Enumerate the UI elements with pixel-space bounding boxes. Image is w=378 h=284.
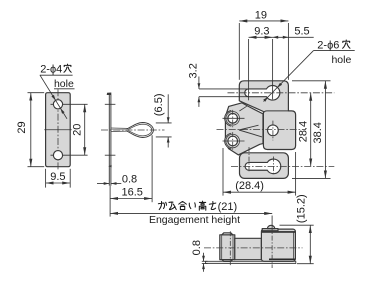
dimension 9.3 extension lines bbox=[248, 39, 250, 100]
bottom keyhole vertical center line bbox=[248, 147, 250, 172]
top hole horizontal center line bbox=[228, 92, 335, 94]
middle horizontal center line bbox=[217, 129, 307, 131]
side view left block top tab bbox=[222, 233, 233, 235]
top keyhole slot (phi6) bbox=[245, 86, 280, 101]
svg-text:19: 19 bbox=[255, 9, 267, 21]
dimension 38.4 line bbox=[324, 81, 326, 179]
bottom keyhole slot (phi6) bbox=[245, 159, 281, 174]
label underline 2-phi4 bbox=[40, 74, 73, 76]
dimension (28.4) extension lines bbox=[222, 148, 224, 196]
svg-text:16.5: 16.5 bbox=[121, 186, 142, 198]
dimension 29 extension lines bbox=[28, 92, 45, 94]
clip strip top hook bbox=[107, 93, 112, 96]
label kamiai-takasa (21) bbox=[158, 201, 166, 209]
dimension 3.2 extension lines bbox=[199, 88, 249, 90]
dimension 5.5 line bbox=[273, 36, 314, 38]
dimension (15.2) extension lines bbox=[280, 224, 314, 226]
bottom hole horizontal center line bbox=[231, 165, 334, 167]
strike plate mid center line bbox=[44, 129, 71, 131]
dimension 19 extension lines bbox=[238, 23, 240, 80]
svg-text:(15.2): (15.2) bbox=[296, 194, 308, 223]
svg-text:0.8: 0.8 bbox=[122, 173, 137, 185]
dimension 0.8 side ticks bbox=[202, 260, 208, 262]
clip top hole tick bbox=[105, 103, 116, 105]
dimension 38.4 extension lines bbox=[292, 80, 331, 82]
lower roller ring bbox=[225, 133, 241, 149]
label underline 2-phi6 bbox=[314, 50, 355, 52]
arm crease line bbox=[239, 106, 246, 111]
dimension 20 line bbox=[84, 104, 86, 155]
svg-text:20: 20 bbox=[71, 124, 83, 136]
dimension 16.5 line bbox=[110, 198, 152, 200]
dimension 0.8 side line bbox=[203, 253, 205, 261]
lower roller center ticks bbox=[223, 140, 245, 142]
svg-text:hole: hole bbox=[331, 54, 351, 66]
clip fold lines bbox=[111, 127, 128, 129]
catch top flange and center block bbox=[239, 81, 295, 150]
svg-text:Engagement height: Engagement height bbox=[149, 214, 240, 226]
svg-text:3.2: 3.2 bbox=[187, 63, 199, 78]
strike plate (front view) bbox=[46, 93, 71, 167]
catch spring arm (front) bbox=[225, 103, 263, 155]
clip bottom hole tick bbox=[105, 154, 116, 156]
catch bottom flange bbox=[240, 153, 289, 179]
center block hole bbox=[268, 125, 279, 136]
dimension (6.5) extension ticks bbox=[156, 122, 172, 124]
dimension (6.5) line bbox=[167, 94, 169, 123]
dimension (28.4) line bbox=[223, 191, 296, 193]
upper roller center ticks bbox=[223, 117, 245, 119]
svg-text:2-ϕ4: 2-ϕ4 bbox=[40, 64, 62, 76]
svg-text:9.5: 9.5 bbox=[50, 171, 65, 183]
strike plate top hole (phi 4) bbox=[53, 100, 62, 109]
dimension 29 line bbox=[30, 93, 32, 167]
upper roller bbox=[228, 114, 238, 124]
side view rivet dome bbox=[267, 225, 274, 228]
dimension 16.5 extension line right bbox=[151, 135, 153, 202]
side view vertical center line / (21) extension bbox=[271, 216, 273, 227]
side view left block bottom tab bbox=[222, 260, 233, 262]
svg-text:0.8: 0.8 bbox=[191, 240, 203, 255]
dimension engagement height (21) line bbox=[110, 212, 272, 214]
dimension 3.2 line bbox=[198, 77, 200, 89]
clip strip extension line bbox=[109, 186, 111, 217]
svg-text:5.5: 5.5 bbox=[294, 25, 309, 37]
svg-text:38.4: 38.4 bbox=[312, 122, 324, 143]
svg-text:(21): (21) bbox=[218, 201, 238, 213]
dimension 19 line bbox=[239, 20, 288, 22]
strike plate top hole center line bbox=[51, 103, 88, 105]
side view main block top fold line bbox=[262, 231, 295, 233]
svg-text:(6.5): (6.5) bbox=[153, 93, 165, 116]
bottom circle vertical center line bbox=[273, 157, 275, 176]
svg-text:2-ϕ6: 2-ϕ6 bbox=[317, 40, 339, 52]
clip spring loop outer bbox=[127, 123, 154, 138]
label underline hole left bbox=[54, 88, 75, 90]
side view left block center line bbox=[229, 231, 231, 265]
dimension 9.3 line bbox=[249, 36, 273, 38]
dimension 28.4 line bbox=[310, 93, 312, 167]
clip bottom tab mark bbox=[108, 165, 111, 168]
clip loop center line bbox=[101, 129, 165, 131]
strike plate vertical center line bbox=[57, 89, 59, 170]
dimension 9.5 line bbox=[46, 182, 71, 184]
center block top edge line bbox=[264, 111, 288, 113]
lower roller bbox=[228, 136, 238, 146]
side view main block bottom fold line bbox=[269, 258, 295, 260]
side view middle block bbox=[235, 238, 262, 259]
clip strip left edge bbox=[108, 95, 110, 186]
side view horizontal center line bbox=[204, 247, 303, 249]
side view left roller block bbox=[220, 235, 235, 260]
strike plate edge-on (0.8 thick) bbox=[206, 261, 296, 263]
clip strip right edge bbox=[110, 95, 112, 186]
strike plate bottom hole center line bbox=[51, 154, 88, 156]
side view main block bbox=[261, 229, 295, 261]
leader line to phi4 hole bbox=[40, 75, 67, 119]
svg-text:28.4: 28.4 bbox=[297, 121, 309, 142]
svg-text:29: 29 bbox=[16, 121, 28, 133]
svg-text:9.3: 9.3 bbox=[254, 26, 269, 38]
clip spring loop inner bbox=[128, 124, 151, 136]
dimension 9.5 extension lines bbox=[45, 169, 47, 188]
dimension 0.8 clip line bbox=[97, 183, 109, 185]
dimension (15.2) line bbox=[309, 225, 311, 264]
side view main block inner edge bbox=[292, 233, 294, 259]
spring leaf edges bbox=[239, 125, 259, 130]
strike plate bottom hole (phi 4) bbox=[53, 151, 62, 160]
side view top tab bbox=[262, 229, 278, 231]
svg-text:(28.4): (28.4) bbox=[235, 180, 264, 192]
upper roller ring bbox=[225, 110, 241, 126]
block hole vertical center line bbox=[272, 121, 274, 141]
leader line to phi6 hole bbox=[264, 51, 314, 102]
